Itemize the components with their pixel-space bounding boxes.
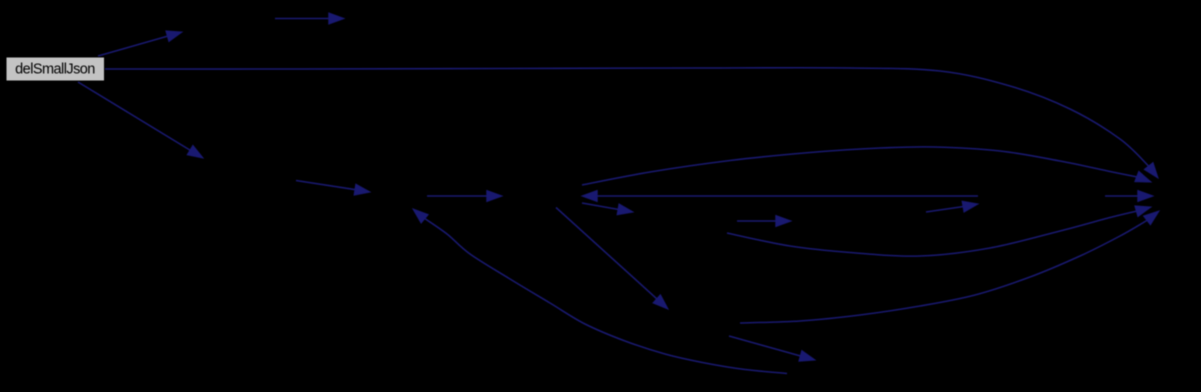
wire edge E14: bottom node curve up to far-right node [740,211,1159,323]
wire edge E5: mid-left node to node3 [296,181,370,196]
wire edge E7: middle-right node back to node4 (left arrow) [582,191,978,202]
svg-text:delSmallJson: delSmallJson [15,62,95,78]
wire edge E11: nodeC curve to far-right node [727,206,1151,256]
wire edge E9: node4 short arrow to nodeC [582,203,633,215]
wire edge E6: node3 to node4 [427,191,502,202]
wire edge E13: small arrow into middle-right node [926,201,978,212]
node delSmallJson (root function box) [6,57,105,81]
wire edge E10: node4 diagonal down to bottom node [556,208,668,310]
wire edge E15: bottom node to lower node [729,336,815,361]
wire edge E8: node4 arc to far-right node [582,147,1151,185]
wire edge E1: delSmallJson to node1 (top-left) [98,31,182,56]
wire edge E17: nodeC short arrow to next node [737,216,791,227]
wire edge E3: delSmallJson long curve to far-right node [104,68,1158,178]
wire edge E2: node1 to node2 (top short arrow) [275,13,344,24]
wire edge E4: delSmallJson down to mid-left node [78,82,203,158]
wire edge E16: long return swoosh from bottom-right node to node3 [413,209,787,374]
wire edge E12: middle-right node to far-right node [1105,191,1153,202]
